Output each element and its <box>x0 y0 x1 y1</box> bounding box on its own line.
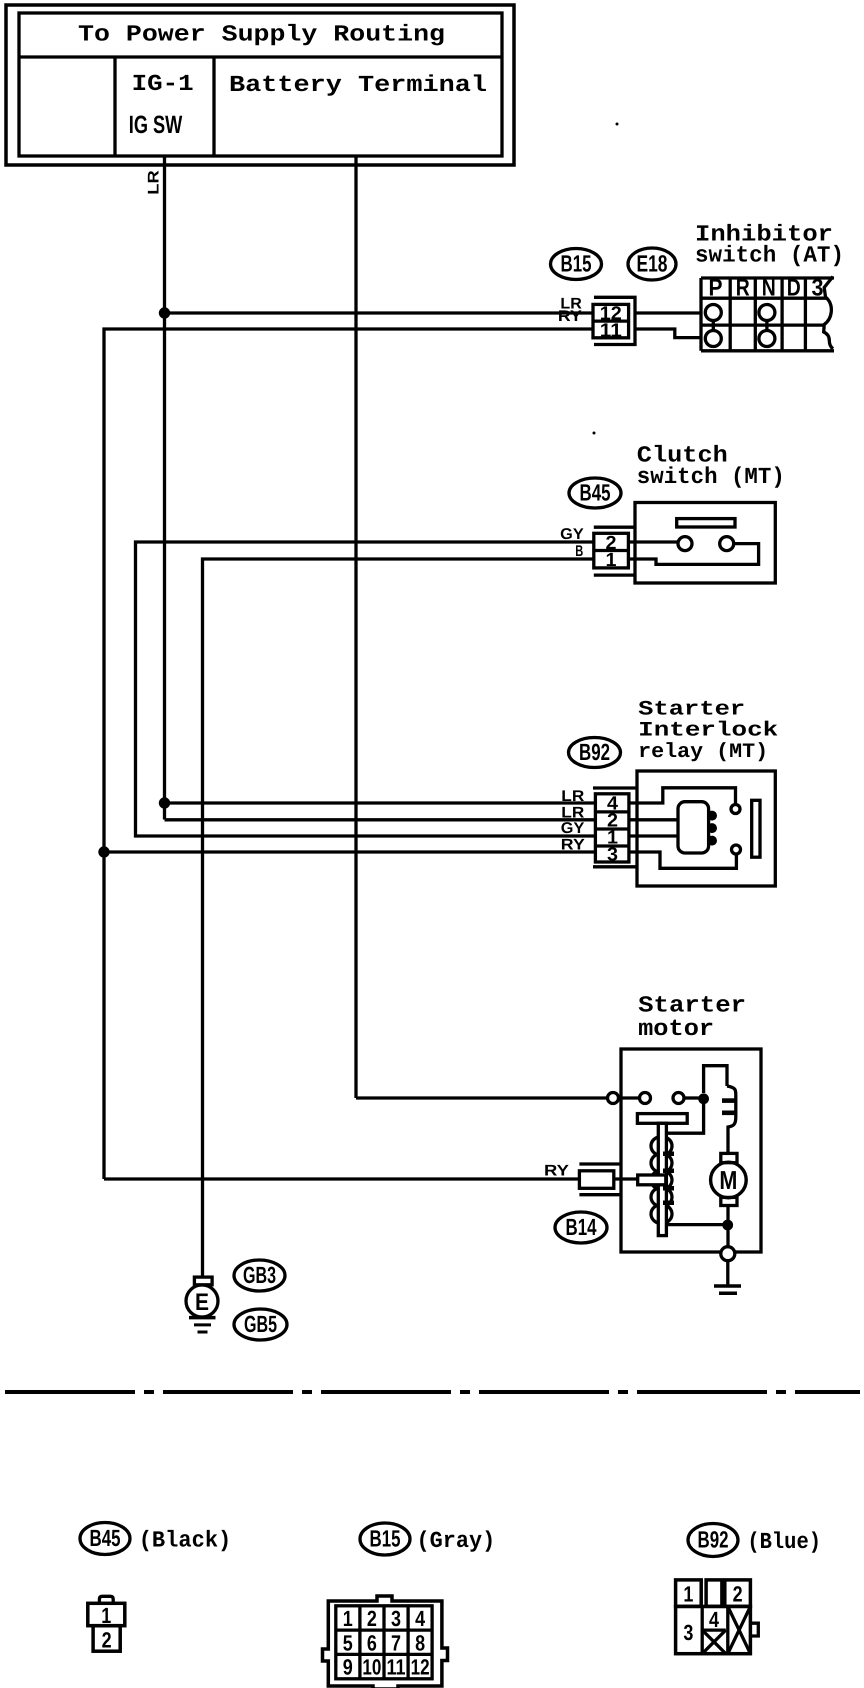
clutch switch wire to contact 1 <box>628 540 678 543</box>
connector oval B92 <box>569 738 621 768</box>
clutch switch wire path pin1 <box>628 544 758 565</box>
power supply box divider vertical 2 <box>212 57 215 156</box>
svg-text:GY: GY <box>561 820 585 837</box>
svg-text:7: 7 <box>391 1630 401 1655</box>
svg-text:9: 9 <box>343 1655 353 1680</box>
wire GY clutch to relay pin 1 <box>136 542 596 836</box>
wire battery vertical <box>354 157 357 1098</box>
ground oval GB5 <box>234 1309 287 1340</box>
connector B92 pinout cell 4 <box>702 1628 726 1631</box>
junction dot LR relay branch <box>159 797 170 808</box>
wire connector to switch pin 11 stepped <box>635 329 701 338</box>
inhibitor switch grid <box>701 276 834 279</box>
svg-text:relay (MT): relay (MT) <box>638 741 768 764</box>
wire to ground <box>726 1261 729 1286</box>
svg-text:RY: RY <box>544 1163 570 1180</box>
inhibitor switch torn edge <box>824 277 833 349</box>
connector oval B92 bottom <box>688 1524 738 1557</box>
svg-text:B15: B15 <box>561 251 592 277</box>
wire RY to starter motor <box>104 1177 579 1180</box>
plunger return spring <box>651 1137 672 1156</box>
connector B45 pinout cell 1 <box>88 1603 125 1625</box>
contact stem N <box>765 321 768 331</box>
relay coil box <box>678 802 709 853</box>
connector B14 cavity <box>579 1171 613 1189</box>
relay wire pin4 to contact <box>629 788 736 805</box>
wire connector to switch pin 12 <box>635 311 701 314</box>
starter wire segment to node <box>684 1096 700 1099</box>
svg-text:B92: B92 <box>698 1527 729 1553</box>
connector B15 pin table <box>593 304 629 337</box>
power supply box divider vertical 1 <box>113 57 116 156</box>
starter contact wire segment <box>619 1096 640 1099</box>
motor brush bottom <box>721 1197 737 1205</box>
relay wire pin1 to coil <box>629 834 678 837</box>
svg-text:switch (AT): switch (AT) <box>695 243 844 269</box>
svg-text:10: 10 <box>362 1655 381 1680</box>
motor M circle <box>711 1162 747 1198</box>
connector B92 pinout X mark right <box>728 1606 751 1653</box>
svg-text:Starter: Starter <box>638 699 745 722</box>
plunger T bar <box>637 1114 687 1124</box>
clutch contact circle 2 <box>720 537 734 551</box>
svg-text:3: 3 <box>607 845 618 866</box>
svg-text:GB5: GB5 <box>244 1311 277 1337</box>
svg-text:3: 3 <box>812 275 824 302</box>
connector B14 bracket <box>579 1162 621 1165</box>
junction dot motor ground <box>722 1220 733 1231</box>
clutch contact circle 1 <box>678 537 692 551</box>
wire LR to relay pin 2 <box>165 818 596 821</box>
starter contact circle 2 <box>673 1093 684 1104</box>
wire LR branch to relay pin 4 <box>165 801 596 804</box>
wire plunger to ground node <box>667 1223 728 1226</box>
connector oval E18 <box>628 248 676 280</box>
svg-text:E: E <box>195 1289 209 1316</box>
svg-text:2: 2 <box>102 1628 112 1653</box>
wire connector to moving contact <box>614 1177 638 1180</box>
svg-text:N: N <box>762 275 776 302</box>
connector B92 pinout cell 1 <box>676 1580 702 1607</box>
contact stem P <box>712 321 715 331</box>
wire battery to starter motor terminal <box>356 1096 608 1099</box>
junction dot solenoid node <box>698 1093 709 1104</box>
svg-text:3: 3 <box>391 1606 401 1631</box>
wire LR to inhibitor pin 12 <box>165 311 594 314</box>
power supply box outer frame <box>6 5 514 165</box>
solenoid coil turn marks <box>722 1098 736 1103</box>
svg-text:IG-1: IG-1 <box>132 71 194 97</box>
separator dash-dot line <box>5 1390 860 1394</box>
connector B45 pin table <box>594 533 629 568</box>
svg-text:8: 8 <box>415 1630 425 1655</box>
svg-text:RY: RY <box>558 308 583 325</box>
svg-text:3: 3 <box>683 1620 693 1645</box>
svg-text:11: 11 <box>387 1655 406 1680</box>
connector B45 pinout cell 2 <box>93 1626 120 1652</box>
svg-text:GY: GY <box>560 526 584 543</box>
svg-text:B45: B45 <box>580 480 611 506</box>
svg-text:RY: RY <box>561 837 586 854</box>
svg-text:1: 1 <box>683 1582 693 1607</box>
svg-text:(Blue): (Blue) <box>747 1529 821 1555</box>
svg-text:LR: LR <box>561 788 584 805</box>
svg-text:2: 2 <box>733 1582 743 1607</box>
relay contact circle bottom <box>732 845 741 854</box>
connector B92 pinout X mark center <box>702 1630 726 1654</box>
connector B92 pinout middle cavity <box>706 1580 722 1607</box>
svg-text:1: 1 <box>343 1606 353 1631</box>
contact circle P row2 <box>705 331 721 347</box>
svg-text:B15: B15 <box>370 1526 401 1552</box>
connector B92 pinout side tab <box>750 1623 758 1636</box>
power supply box divider horizontal <box>19 55 502 58</box>
clutch switch actuator bar <box>677 519 735 527</box>
ground terminal E <box>194 1277 212 1285</box>
connector B92 pinout cell 2 <box>725 1580 751 1607</box>
solenoid coil outline <box>727 1086 736 1154</box>
relay contact circle top <box>731 805 740 814</box>
svg-text:P: P <box>709 275 723 302</box>
wire LR vertical from IG-1 <box>163 157 166 820</box>
ground symbol E lines <box>189 1316 216 1320</box>
svg-text:11: 11 <box>600 321 622 342</box>
connector B92 pin table <box>595 794 629 862</box>
relay wire pin2 to coil <box>629 818 678 821</box>
starter motor body <box>621 1049 761 1252</box>
relay body <box>637 771 775 886</box>
wire RY to inhibitor pin 11 <box>104 329 593 1179</box>
connector oval B45 <box>569 478 621 508</box>
clutch switch body <box>635 503 775 584</box>
svg-text:(Black): (Black) <box>139 1528 232 1554</box>
svg-text:motor: motor <box>638 1016 714 1042</box>
svg-text:Battery Terminal: Battery Terminal <box>229 72 487 98</box>
starter case terminal circle <box>721 1247 735 1261</box>
junction dot RY relay branch <box>98 846 109 857</box>
ground oval GB3 <box>234 1260 285 1291</box>
svg-text:switch (MT): switch (MT) <box>637 464 785 490</box>
connector B92 bracket <box>593 786 637 789</box>
svg-text:M: M <box>719 1165 737 1195</box>
svg-text:IG SW: IG SW <box>129 111 183 139</box>
svg-text:2: 2 <box>367 1606 377 1631</box>
connector B15 bracket <box>594 297 635 344</box>
relay wire pin3 to contact <box>629 852 737 868</box>
svg-text:4: 4 <box>709 1607 720 1632</box>
contact circle N row2 <box>759 331 775 347</box>
power supply box inner frame <box>19 13 502 156</box>
svg-text:6: 6 <box>367 1630 377 1655</box>
svg-text:5: 5 <box>343 1630 353 1655</box>
relay coil turn marks <box>707 811 717 821</box>
connector oval B45 bottom <box>80 1523 130 1555</box>
starter terminal circle <box>608 1093 619 1104</box>
wire node down to plunger link <box>667 1104 704 1133</box>
connector B92 pinout lower block <box>676 1606 751 1653</box>
spring crossing nubs <box>663 1152 674 1157</box>
svg-text:1: 1 <box>606 550 617 571</box>
relay contact bar <box>752 800 760 857</box>
svg-text:B45: B45 <box>90 1525 121 1551</box>
svg-text:E18: E18 <box>637 251 668 277</box>
svg-text:(Gray): (Gray) <box>417 1528 496 1554</box>
svg-text:B: B <box>575 543 583 560</box>
svg-text:B14: B14 <box>566 1214 597 1240</box>
svg-text:Starter: Starter <box>638 993 746 1019</box>
svg-text:D: D <box>787 275 801 302</box>
connector B45 pinout tab <box>99 1596 113 1603</box>
junction dot LR inhibitor <box>159 307 170 318</box>
contact circle N row1 <box>759 305 775 321</box>
connector B45 bracket <box>594 526 635 529</box>
plunger stem <box>658 1123 666 1235</box>
starter contact circle 1 <box>640 1093 651 1104</box>
ground symbol starter <box>714 1284 741 1288</box>
connector B15 pinout grid <box>336 1606 432 1679</box>
svg-text:LR: LR <box>561 805 584 822</box>
connector oval B15 bottom <box>360 1523 410 1555</box>
wire RY branch to relay pin 3 <box>104 850 595 853</box>
svg-text:GB3: GB3 <box>243 1262 276 1288</box>
svg-text:LR: LR <box>146 170 163 195</box>
svg-text:12: 12 <box>411 1655 430 1680</box>
motor brush top <box>721 1153 737 1162</box>
svg-text:R: R <box>736 275 750 302</box>
connector oval B15 <box>551 249 602 280</box>
connector oval B14 <box>555 1212 607 1243</box>
svg-text:To Power Supply Routing: To Power Supply Routing <box>78 22 445 48</box>
starter moving contact bar <box>638 1175 666 1185</box>
svg-text:Interlock: Interlock <box>638 720 778 743</box>
wire motor to ground node <box>726 1206 729 1247</box>
connector B15 pinout shell <box>323 1596 448 1688</box>
contact circle P row1 <box>705 305 721 321</box>
svg-text:B92: B92 <box>579 739 610 765</box>
wire B clutch to ground <box>203 559 594 1277</box>
speck artifacts <box>616 123 619 126</box>
wire node to solenoid coil <box>704 1066 727 1093</box>
svg-text:4: 4 <box>415 1606 426 1631</box>
